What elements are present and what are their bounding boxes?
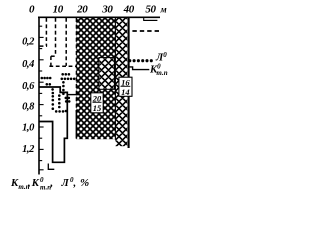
- solid curve exit at right: [129, 67, 149, 70]
- svg-text:,: ,: [27, 178, 31, 189]
- svg-text:50: 50: [145, 4, 156, 16]
- dashed curve exit at right: [132, 30, 161, 32]
- hatched rock mass band: [76, 18, 115, 139]
- dashed left boundary of hatched band: [75, 18, 77, 112]
- svg-text:0,6: 0,6: [22, 81, 35, 92]
- svg-text:Л: Л: [61, 178, 70, 189]
- svg-text:0,4: 0,4: [22, 59, 34, 70]
- svg-text:40: 40: [123, 4, 135, 16]
- right curve labels: [149, 51, 168, 77]
- svg-text:0: 0: [29, 4, 35, 16]
- wall line: [128, 17, 130, 148]
- top-right small mark: [143, 19, 157, 21]
- svg-text:20: 20: [76, 4, 88, 16]
- svg-text:20: 20: [92, 93, 102, 103]
- svg-text:30: 30: [101, 4, 113, 16]
- dashed curve: [40, 18, 77, 66]
- top axis: [38, 16, 160, 18]
- left axis ticks: [39, 26, 44, 170]
- svg-text:10: 10: [53, 4, 64, 16]
- short solid branch toward band: [67, 94, 80, 96]
- svg-text:0,8: 0,8: [22, 102, 35, 113]
- svg-text:,: ,: [73, 178, 77, 189]
- small label box 16/14: [119, 77, 132, 97]
- hatched inset box: [99, 58, 115, 90]
- svg-text:16: 16: [121, 77, 130, 87]
- svg-text:15: 15: [93, 103, 102, 113]
- svg-text:,: ,: [50, 178, 54, 189]
- svg-text:1,0: 1,0: [22, 122, 35, 133]
- axis labels: [22, 4, 166, 155]
- lattice column: [115, 18, 127, 146]
- solid stepped curve: [39, 87, 67, 162]
- svg-text:1,2: 1,2: [22, 144, 35, 155]
- bottom axis title: [10, 176, 89, 191]
- svg-text:0,2: 0,2: [22, 37, 35, 48]
- svg-text:К: К: [31, 178, 40, 189]
- svg-text:%: %: [80, 177, 89, 189]
- left axis: [38, 17, 40, 175]
- small L mark at axis bottom: [48, 164, 54, 170]
- small label box 20/15: [91, 93, 103, 113]
- dotted curve exit at right: [128, 59, 153, 62]
- boundary line between band and lattice column: [114, 18, 116, 140]
- svg-text:14: 14: [121, 87, 130, 97]
- svg-text:м: м: [160, 5, 167, 15]
- dotted curve: [41, 73, 76, 113]
